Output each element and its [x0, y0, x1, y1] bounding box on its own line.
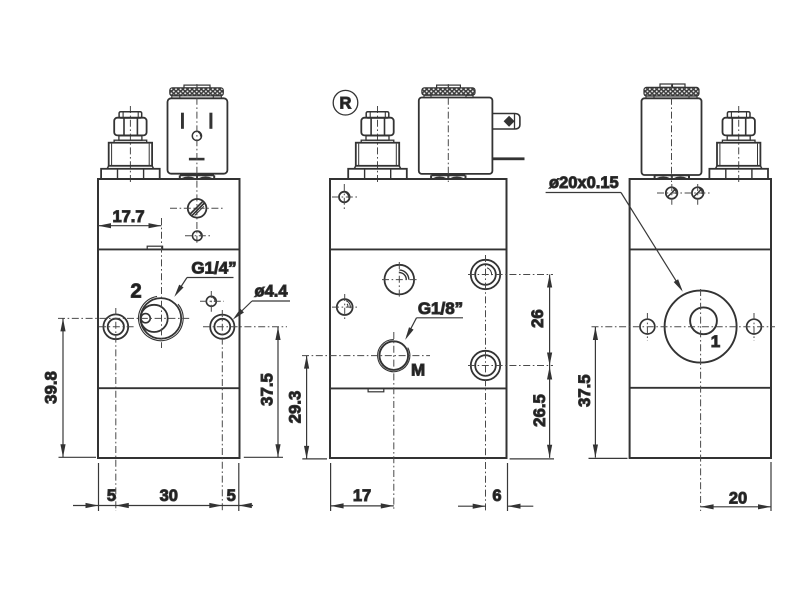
svg-text:ø20x0.15: ø20x0.15	[549, 174, 619, 192]
svg-text:17.7: 17.7	[112, 208, 144, 226]
svg-text:1: 1	[711, 332, 720, 351]
svg-text:26: 26	[528, 309, 547, 328]
svg-text:20: 20	[729, 490, 747, 508]
svg-text:39.8: 39.8	[41, 371, 60, 404]
svg-text:ø4.4: ø4.4	[254, 283, 288, 301]
svg-text:5: 5	[107, 487, 116, 505]
svg-text:G1/8”: G1/8”	[418, 299, 463, 318]
svg-text:37.5: 37.5	[258, 373, 277, 406]
svg-text:2: 2	[130, 281, 141, 303]
svg-text:30: 30	[160, 487, 178, 505]
svg-text:5: 5	[227, 487, 236, 505]
svg-text:29.3: 29.3	[286, 391, 305, 424]
svg-text:G1/4”: G1/4”	[191, 259, 236, 278]
svg-text:26.5: 26.5	[530, 394, 549, 427]
svg-text:M: M	[411, 360, 425, 379]
svg-text:37.5: 37.5	[575, 374, 594, 407]
svg-text:6: 6	[492, 487, 501, 505]
svg-text:R: R	[340, 95, 352, 113]
svg-text:17: 17	[353, 487, 371, 505]
